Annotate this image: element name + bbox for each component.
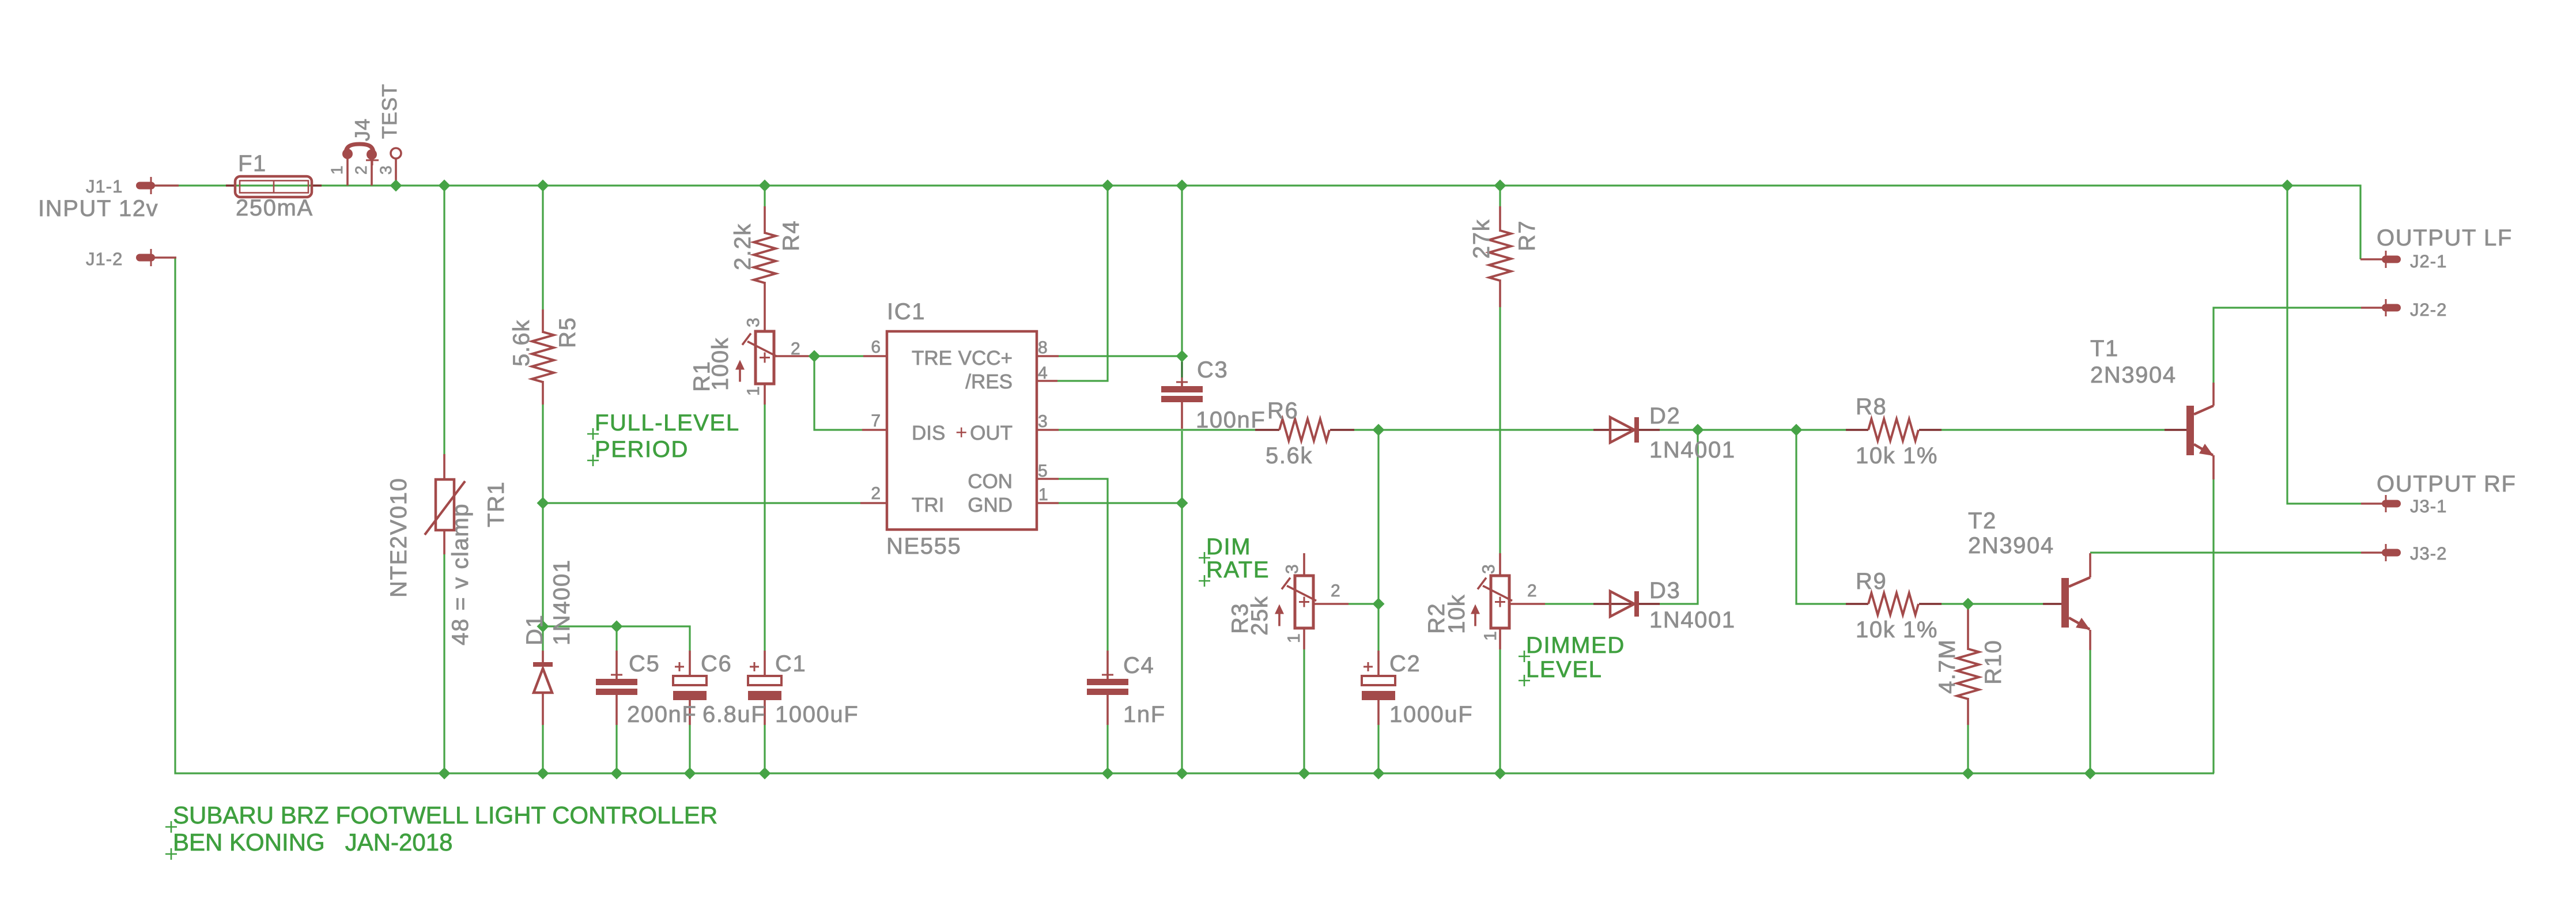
resistor R9 <box>1868 593 1918 615</box>
wire IC1 pin 5 CON down to C4 <box>1059 479 1108 651</box>
svg-text:NE555: NE555 <box>886 534 961 559</box>
svg-text:5.6k: 5.6k <box>1266 443 1313 468</box>
pin stub R4 bottom / R1 pin3 <box>764 282 766 332</box>
wire +12V drop to R5 top <box>542 186 543 309</box>
junction IC GND on GND rail <box>1176 768 1188 780</box>
pin stub C3 bottom crossing OUT <box>1181 400 1183 429</box>
diode D2 <box>1610 417 1639 443</box>
title anchor cross line 1 <box>165 821 177 833</box>
net label anchor cross LEVEL <box>1519 675 1530 686</box>
svg-text:6.8uF: 6.8uF <box>702 702 766 727</box>
svg-text:TR1: TR1 <box>484 481 509 527</box>
pin stub D3 cathode <box>1639 603 1660 605</box>
connector pad J2-2 <box>2382 299 2401 316</box>
svg-text:1: 1 <box>1481 631 1500 641</box>
wire +12V top rail from J1-1 to J2-1 corner <box>156 186 2360 259</box>
wire T1 collector up and right to J2-2 <box>2214 308 2361 383</box>
svg-text:INPUT 12v: INPUT 12v <box>38 196 158 221</box>
svg-text:R10: R10 <box>1981 640 2006 685</box>
pin stub R6 right <box>1330 429 1354 431</box>
pin stub J3-1 <box>2361 502 2382 505</box>
wire C3 bottom to GND node <box>1181 431 1183 503</box>
wire C2 bottom to GND rail <box>1377 725 1379 773</box>
svg-text:D2: D2 <box>1649 403 1680 429</box>
pin stub IC1 pin 2 <box>860 502 887 504</box>
diode D1 <box>533 662 553 693</box>
fuse F1 <box>235 176 312 197</box>
wire R1 wiper to node A <box>810 355 863 357</box>
wire +12V drop to R4 top <box>764 186 765 206</box>
svg-text:8: 8 <box>1038 338 1048 357</box>
connector pad J3-2 <box>2382 544 2401 561</box>
junction C5 branch <box>611 621 623 633</box>
junction R5 on +12V rail <box>537 180 549 192</box>
svg-text:TEST: TEST <box>377 84 401 139</box>
junction D1 cathode branch <box>537 621 549 633</box>
svg-text:VCC+: VCC+ <box>958 347 1013 369</box>
junction node R8 / R9 <box>1791 424 1803 436</box>
svg-text:FULL-LEVEL: FULL-LEVEL <box>595 410 740 436</box>
op-amp U1 IC1 NE555 body <box>887 331 1037 530</box>
pin stub IC1 pin 7 <box>862 429 887 431</box>
wire C4 bottom to GND rail <box>1106 725 1108 773</box>
junction R4 on +12V rail <box>759 180 771 192</box>
diode D3 <box>1610 591 1639 617</box>
wire D1 anode to GND rail <box>542 725 543 773</box>
junction VCC drop on +12V rail <box>1176 180 1188 192</box>
pin stub F1 right <box>312 184 322 187</box>
svg-text:J2-2: J2-2 <box>2410 300 2447 320</box>
pin stub IC1 pin 8 <box>1036 355 1059 357</box>
pin stub C2 bottom <box>1377 699 1380 725</box>
wire R8 to T1 base <box>1942 429 2165 430</box>
pin stub J1-2 <box>154 256 176 259</box>
junction node R9 / R10 / T2 base <box>1962 598 1974 610</box>
wire D2 cathode to R8 <box>1660 429 1846 430</box>
junction R3 on GND rail <box>1298 768 1310 780</box>
resistor R8 <box>1868 419 1918 441</box>
pin stub T1 emitter <box>2212 455 2215 479</box>
svg-text:3: 3 <box>744 318 763 327</box>
resistor R4 <box>754 233 776 283</box>
connector pad J2-1 <box>2382 251 2401 268</box>
svg-text:1: 1 <box>1038 485 1048 504</box>
wire node A down to IC1 pin 7 DIS <box>814 356 862 430</box>
svg-text:T1: T1 <box>2090 336 2119 361</box>
svg-text:10k 1%: 10k 1% <box>1856 443 1938 468</box>
svg-text:2N3904: 2N3904 <box>2090 362 2177 388</box>
junction R10 on GND rail <box>1962 768 1974 780</box>
svg-text:T2: T2 <box>1968 508 1997 534</box>
junction C4 on GND rail <box>1102 768 1114 780</box>
pin stub J4 pin3 <box>395 158 397 186</box>
net label anchor cross DIM <box>1199 552 1210 564</box>
svg-text:/RES: /RES <box>965 371 1013 393</box>
junction C2 on GND rail <box>1373 768 1385 780</box>
pin stub R6 left <box>1255 429 1279 431</box>
wire node B down to C2 top <box>1377 604 1379 651</box>
svg-text:C6: C6 <box>701 651 732 677</box>
pin stub D2 anode <box>1593 429 1610 431</box>
svg-text:100nF: 100nF <box>1196 407 1266 433</box>
wire OUT net down to R3 wiper node <box>1377 430 1379 604</box>
varistor TR1 <box>425 479 465 535</box>
pin stub C5 bottom <box>615 694 618 725</box>
svg-text:2: 2 <box>1527 581 1537 600</box>
svg-text:IC1: IC1 <box>887 299 926 324</box>
svg-text:48 = v clamp: 48 = v clamp <box>448 503 473 645</box>
trimmer R3 <box>1275 576 1316 628</box>
wire R3 pin1 to GND rail <box>1303 649 1305 773</box>
svg-text:J1-1: J1-1 <box>86 176 123 197</box>
svg-text:3: 3 <box>1283 564 1302 574</box>
pin stub R9 right <box>1919 603 1942 605</box>
svg-text:J3-2: J3-2 <box>2410 543 2447 564</box>
resistor R7 <box>1489 231 1511 281</box>
wire R3 wiper to node B <box>1349 603 1378 604</box>
pin stub T1 collector <box>2212 383 2215 406</box>
junction J3-1 drop on +12V rail <box>2282 180 2294 192</box>
pin stub C4 top <box>1106 651 1109 680</box>
wire R1 pin1 down to C1 top <box>764 405 765 651</box>
svg-text:TRI: TRI <box>912 494 944 516</box>
pin stub R7 top <box>1499 206 1501 232</box>
svg-text:D3: D3 <box>1649 578 1680 603</box>
svg-text:J2-1: J2-1 <box>2410 251 2447 271</box>
wire +12V drop to IC1 pin 4 /RES <box>1057 186 1108 381</box>
pin stub TR1 bottom <box>443 529 445 554</box>
net label anchor cross PERIOD <box>587 455 599 466</box>
capacitor C1 <box>748 662 781 700</box>
pin stub R3 pin1 <box>1303 627 1305 649</box>
pin stub C3 top <box>1181 382 1183 387</box>
junction TRI net at R5 column <box>537 497 549 509</box>
svg-text:2N3904: 2N3904 <box>1968 533 2054 558</box>
svg-text:100k: 100k <box>708 337 733 391</box>
resistor R6 <box>1279 419 1329 441</box>
wire GND node down to GND rail <box>1181 503 1183 773</box>
trimmer R2 <box>1471 576 1512 628</box>
svg-text:OUTPUT RF: OUTPUT RF <box>2377 471 2517 497</box>
pin stub D3 anode <box>1593 603 1610 605</box>
svg-text:5.6k: 5.6k <box>509 319 534 366</box>
pin stub C4 bottom <box>1106 694 1109 725</box>
svg-text:R5: R5 <box>555 317 580 348</box>
svg-text:2: 2 <box>791 339 800 358</box>
capacitor C6 <box>673 662 707 700</box>
svg-text:DIMMED: DIMMED <box>1526 633 1625 658</box>
svg-text:2.2k: 2.2k <box>730 223 756 270</box>
connector pad J1-1 <box>136 177 155 194</box>
svg-text:+: + <box>955 421 967 444</box>
junction R7 on +12V rail <box>1494 180 1506 192</box>
trimmer R1 <box>735 331 777 384</box>
wire C5 top branch <box>615 626 617 651</box>
pin stub R3 wiper pin2 <box>1313 603 1349 605</box>
pin stub IC1 pin 1 <box>1036 502 1059 504</box>
pin stub R5 top <box>542 309 544 333</box>
svg-text:1: 1 <box>1285 633 1304 643</box>
pin stub J3-2 <box>2361 551 2382 554</box>
pin stub IC1 pin 3 <box>1036 429 1059 431</box>
pin stub J4 pin2 <box>371 158 373 186</box>
svg-text:LEVEL: LEVEL <box>1526 657 1603 682</box>
wire TR1 bottom to GND rail <box>443 554 445 773</box>
pin stub J4 pin1 <box>346 158 349 186</box>
svg-text:4: 4 <box>1038 364 1048 383</box>
svg-text:R8: R8 <box>1856 394 1887 420</box>
svg-text:27k: 27k <box>1469 219 1494 259</box>
svg-text:C5: C5 <box>629 651 660 677</box>
junction node D2 / D3 cathodes <box>1692 424 1704 436</box>
pin stub D1 anode <box>542 693 544 725</box>
wire IC1 pin 1 GND to GND node <box>1059 502 1182 504</box>
wire TRI net from R5/D1 column to IC1 pin 2 <box>543 502 860 504</box>
pin stub R10 bottom <box>1967 698 1969 725</box>
junction D1 on GND rail <box>537 768 549 780</box>
pin stub C1 bottom <box>764 699 766 725</box>
wire OUT net: IC1 pin 3 to R6 <box>1059 429 1255 430</box>
pin stub R8 left <box>1846 429 1868 431</box>
svg-text:200nF: 200nF <box>627 702 697 727</box>
wire +12V drop to TR1 top <box>443 186 445 454</box>
jumper J4 <box>342 144 401 165</box>
svg-text:OUT: OUT <box>970 422 1013 444</box>
pin stub F1 left <box>226 184 236 187</box>
junction TR1 on +12V rail <box>439 180 451 192</box>
pin stub J2-1 <box>2360 258 2382 260</box>
svg-text:DIM: DIM <box>1206 534 1251 560</box>
svg-text:10k 1%: 10k 1% <box>1856 617 1938 643</box>
wire D3 cathode up to D2 output node <box>1660 430 1698 604</box>
svg-text:5: 5 <box>1038 462 1048 481</box>
wire VCC node to C3 top pin (overlap) <box>1181 356 1183 382</box>
svg-text:J3-1: J3-1 <box>2410 496 2447 516</box>
junction C5 on GND rail <box>611 768 623 780</box>
junction VCC node pin8 / C3 <box>1176 350 1188 362</box>
capacitor C5 <box>596 670 637 695</box>
svg-text:25k: 25k <box>1247 596 1272 636</box>
junction /RES drop on +12V rail <box>1102 180 1114 192</box>
junction GND node pin1 / C3 <box>1176 497 1188 509</box>
junction T2 emitter on GND rail <box>2084 768 2097 780</box>
svg-text:C2: C2 <box>1389 651 1421 677</box>
pin stub C5 top <box>615 651 618 680</box>
pin stub R2 wiper pin2 <box>1509 603 1545 605</box>
svg-text:DIS: DIS <box>912 422 945 444</box>
svg-text:C3: C3 <box>1197 357 1228 383</box>
wire C6 bottom to GND rail <box>689 725 690 773</box>
pin stub R4 top <box>764 206 766 234</box>
svg-text:7: 7 <box>871 411 881 430</box>
svg-text:SUBARU BRZ FOOTWELL LIGHT CONT: SUBARU BRZ FOOTWELL LIGHT CONTROLLER <box>173 802 717 829</box>
svg-text:3: 3 <box>1038 412 1048 431</box>
wire R7 bottom to R2 pin 3 <box>1499 307 1501 553</box>
wire +12V drop to J3-1 <box>2287 186 2361 504</box>
pin stub R3 pin3 free <box>1303 553 1305 577</box>
svg-text:1: 1 <box>328 165 346 175</box>
wire R2 pin1 to GND rail <box>1499 649 1501 773</box>
svg-text:PERIOD: PERIOD <box>595 437 689 462</box>
connector pad J3-1 <box>2382 495 2401 512</box>
svg-text:1N4001: 1N4001 <box>1649 437 1736 463</box>
pin stub T2 base <box>2043 603 2061 605</box>
pin stub R9 left <box>1846 603 1868 605</box>
pin stub IC1 pin 5 <box>1036 478 1059 480</box>
svg-text:TRE: TRE <box>912 347 952 369</box>
transistor Q1 T1 <box>2186 406 2214 456</box>
svg-text:2: 2 <box>1331 581 1340 600</box>
wire D2 output node down to R9 <box>1796 430 1846 604</box>
svg-text:NTE2V010: NTE2V010 <box>386 478 411 598</box>
svg-text:3: 3 <box>377 165 395 175</box>
svg-text:F1: F1 <box>238 151 267 176</box>
pin stub D2 cathode <box>1639 429 1660 431</box>
wire C1 bottom to GND rail <box>764 725 765 773</box>
wire R2 wiper to D3 anode <box>1545 603 1593 604</box>
connector pad J1-2 <box>136 249 155 266</box>
svg-text:J1-2: J1-2 <box>86 249 123 269</box>
pin stub R7 bottom <box>1499 279 1501 307</box>
wire T2 emitter to GND rail <box>2089 650 2091 773</box>
svg-text:BEN KONING JAN-2018: BEN KONING JAN-2018 <box>173 829 452 856</box>
svg-text:2: 2 <box>871 484 881 503</box>
svg-text:250mA: 250mA <box>236 195 313 221</box>
svg-text:6: 6 <box>871 338 881 357</box>
svg-text:1: 1 <box>744 386 763 396</box>
junction TR1 on GND rail <box>439 768 451 780</box>
pin stub C2 top <box>1377 651 1380 677</box>
pin stub C6 top <box>689 651 691 677</box>
pin stub J1-1 <box>154 184 179 187</box>
svg-text:1000uF: 1000uF <box>775 702 859 727</box>
junction C1 on GND rail <box>759 768 771 780</box>
wire R5 bottom down through TRI node to D1 <box>542 405 543 651</box>
pin stub T2 collector <box>2089 553 2091 577</box>
pin stub R2 pin1 <box>1499 627 1501 649</box>
net label anchor cross RATE <box>1199 575 1210 587</box>
capacitor C2 <box>1362 662 1395 700</box>
pin stub IC1 pin 4 <box>1036 380 1057 382</box>
svg-text:CON: CON <box>968 470 1013 493</box>
wire OUT net: R6 to D2 anode <box>1354 429 1593 430</box>
pin stub R10 top <box>1967 604 1969 650</box>
pin stub R1 pin1 <box>764 383 766 405</box>
svg-text:RATE: RATE <box>1206 557 1270 583</box>
wire R10 bottom to GND rail <box>1967 725 1969 773</box>
pin stub T2 emitter <box>2089 630 2091 650</box>
wire C5 bottom to GND rail <box>615 725 617 773</box>
svg-text:1N4001: 1N4001 <box>1649 607 1736 633</box>
pin stub TR1 top <box>443 454 445 481</box>
junction node A R1 wiper / pin6 / pin7 <box>809 350 821 362</box>
net label anchor cross FULL-LEVEL <box>587 428 599 440</box>
pin stub IC1 pin 6 <box>863 355 887 357</box>
transistor Q2 T2 <box>2061 577 2090 630</box>
svg-text:OUTPUT LF: OUTPUT LF <box>2377 225 2513 251</box>
svg-text:1N4001: 1N4001 <box>549 559 575 645</box>
svg-text:R9: R9 <box>1856 569 1887 594</box>
wire IC1 pin 8 to VCC node <box>1059 355 1182 357</box>
resistor R5 <box>532 332 554 382</box>
pin stub T1 base <box>2165 429 2186 431</box>
svg-text:1nF: 1nF <box>1123 702 1166 727</box>
svg-text:C1: C1 <box>775 651 806 677</box>
title anchor cross line 2 <box>165 848 177 860</box>
wire +12V drop to R7 top <box>1499 186 1501 206</box>
svg-text:C4: C4 <box>1123 653 1154 678</box>
pin stub J2-2 <box>2361 307 2382 309</box>
junction C6 on GND rail <box>684 768 696 780</box>
svg-text:R7: R7 <box>1514 220 1540 251</box>
wire T1 emitter down to GND rail <box>2212 479 2214 773</box>
pin stub R2 pin3 <box>1499 553 1501 577</box>
svg-text:4.7M: 4.7M <box>1935 639 1960 694</box>
svg-text:R4: R4 <box>779 220 804 251</box>
junction node B R3 wiper / C2 <box>1373 598 1385 610</box>
pin stub R8 right <box>1919 429 1942 431</box>
junction J4 pin3 on +12V rail <box>390 180 402 192</box>
svg-text:10k: 10k <box>1444 594 1470 634</box>
junction node OUT to R3 <box>1373 424 1385 436</box>
pin stub R5 bottom <box>542 381 544 405</box>
svg-text:2: 2 <box>352 165 370 175</box>
junction R2 on GND rail <box>1494 768 1506 780</box>
svg-text:GND: GND <box>968 494 1013 516</box>
wire D1 cathode branch to C5 and C6 <box>543 626 690 651</box>
svg-text:3: 3 <box>1479 564 1498 574</box>
pin stub R1 wiper pin2 <box>774 355 810 357</box>
svg-text:R6: R6 <box>1267 398 1298 424</box>
wire R9 to T2 base <box>1942 603 2043 604</box>
wire +12V drop to VCC node <box>1181 186 1183 356</box>
pin stub C6 bottom <box>689 699 691 725</box>
svg-text:D1: D1 <box>522 614 547 645</box>
capacitor C3 <box>1161 377 1203 402</box>
resistor R10 <box>1957 649 1979 699</box>
svg-text:1000uF: 1000uF <box>1389 702 1473 727</box>
wire T2 collector to J3-2 <box>2090 551 2361 553</box>
wire GND: J1-2 down, bottom rail to T1 emitter corner <box>175 258 2214 773</box>
capacitor C4 <box>1087 670 1128 695</box>
pin stub C1 top <box>764 651 766 677</box>
svg-text:J4: J4 <box>350 118 374 141</box>
net label anchor cross DIMMED <box>1519 651 1530 662</box>
pin stub D1 cathode <box>542 651 544 663</box>
